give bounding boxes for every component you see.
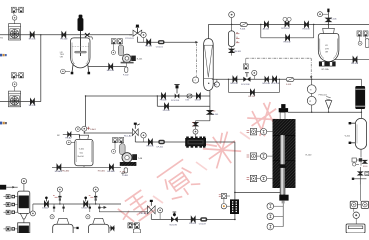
wire T-100 bottom line [52, 166, 121, 168]
wire bypass line y=106.3 [157, 96, 210, 106]
agitator shaft [80, 31, 82, 56]
valve HV-10B [233, 77, 237, 82]
svg-text:FV-108: FV-108 [163, 110, 171, 112]
dash-dot instrument line down to LT [196, 44, 198, 77]
valve HV-4B4 [110, 165, 114, 170]
svg-text:HV-102: HV-102 [145, 46, 153, 48]
tiny colored logo left edge middle [0, 122, 7, 125]
pump box P-101 [9, 24, 21, 40]
wire column bottom outlet [209, 91, 211, 121]
instrument square 2b-b [118, 39, 123, 44]
control valve PCV-101 body [133, 30, 142, 36]
instrument circle below line left [214, 82, 219, 87]
tiny colored logo left edge upper [0, 54, 7, 57]
valve B-101 on outlet (vertical) [207, 111, 212, 115]
svg-text:F-001: F-001 [240, 29, 246, 31]
wire V-100 outlet right [335, 59, 369, 61]
wire lateral to R-100 bottom [235, 191, 283, 193]
strainer F-001 on overhead line [240, 23, 247, 27]
gauge above [252, 70, 257, 75]
column CX-2 [18, 223, 30, 233]
column CX-1 [18, 191, 30, 213]
svg-text:HV-A2: HV-A2 [65, 137, 72, 140]
control valve PCV-A0 [132, 129, 138, 136]
link wire between squares [14, 10, 19, 14]
internal dashed level [72, 46, 89, 48]
vessel A [57, 218, 69, 224]
motor valve RCV-102 [285, 21, 289, 26]
bypass loop on overhead line [261, 25, 314, 38]
rotameter body F-100 [228, 31, 234, 47]
wire line into PCV-A1 [99, 211, 147, 213]
instrument square + circle left of mixer [221, 194, 226, 199]
valve on N2 line [68, 132, 71, 136]
gauge after PCV-A1 [158, 208, 163, 213]
V-100 body outer [318, 34, 339, 62]
svg-text:F-4B1: F-4B1 [122, 175, 129, 177]
inlet black box left edge [0, 185, 6, 190]
svg-text:FV-109: FV-109 [189, 223, 197, 225]
gauge circle above pump 1 [12, 15, 17, 20]
gauge right of funnel [30, 211, 35, 216]
fitting under pump F-4B1 [124, 168, 127, 173]
pump body E-101 [123, 54, 132, 63]
bottom coupling [279, 195, 288, 201]
instrument square on dashed line [245, 58, 247, 64]
T-100 neck [79, 135, 88, 139]
gauge on overhead line [229, 12, 235, 18]
valve HV-10B on y142 [149, 139, 153, 144]
T-100 body [75, 139, 93, 165]
svg-text:F-102: F-102 [123, 74, 129, 76]
svg-text:HV-103: HV-103 [303, 29, 311, 31]
svg-text:SCV-7B: SCV-7B [169, 224, 177, 226]
svg-text:PSV-101: PSV-101 [319, 94, 328, 96]
junction dots on overhead [231, 24, 232, 25]
instrument circle right of column bottom [214, 82, 219, 87]
control valve FCV-101 [175, 93, 180, 98]
svg-text:D-101: D-101 [42, 208, 49, 210]
gauge circle left of neck [67, 140, 72, 145]
wire drop from main line to station2 line [40, 35, 42, 102]
wire PCV-A1 to bottom line [151, 214, 235, 220]
wire circle to box [14, 20, 16, 24]
column shell [204, 39, 214, 91]
wire long line y=96 [86, 95, 210, 97]
vessel legs [72, 64, 89, 73]
svg-text:FV-105: FV-105 [351, 63, 359, 65]
svg-text:PCV-101: PCV-101 [125, 38, 134, 40]
svg-text:P1-4B: P1-4B [129, 222, 137, 226]
agitator motor M1 [79, 15, 83, 19]
svg-text:FCV-101: FCV-101 [171, 100, 180, 102]
inner tube upper white [280, 112, 285, 135]
wire vessel1 bottom outlet line [89, 66, 127, 68]
svg-text:R-100: R-100 [306, 154, 313, 156]
instrument square 2b-a [111, 39, 116, 44]
V-101 left nozzles [351, 123, 355, 143]
svg-text:F-001: F-001 [286, 84, 292, 86]
svg-text:RCV-102: RCV-102 [281, 28, 290, 30]
valve SP-102 [31, 99, 35, 104]
instrument circle LT-101 [193, 77, 199, 83]
svg-text:HV-105: HV-105 [147, 146, 155, 148]
svg-text:D-102: D-102 [82, 208, 89, 210]
actuated valve D-2B [84, 201, 88, 206]
gauge PI on y142 [141, 133, 146, 138]
agitator paddle [75, 51, 87, 53]
gauge above column 1 [21, 178, 26, 183]
svg-text:AV-101: AV-101 [263, 28, 271, 31]
svg-text:SP-102: SP-102 [29, 105, 37, 107]
valve HV-103 [305, 22, 309, 27]
svg-text:HV-10B: HV-10B [263, 83, 271, 85]
V-100 jacket inner [320, 39, 338, 59]
svg-text:HV-102: HV-102 [284, 41, 292, 43]
V-100 neck [323, 28, 335, 33]
R-100 left instrument pairs [247, 129, 273, 135]
control valve FCV-10B [243, 77, 250, 82]
gauge circle [353, 212, 359, 218]
svg-text:B-101: B-101 [213, 114, 219, 116]
svg-text:CF-101: CF-101 [156, 146, 164, 148]
svg-text:HV-4B1: HV-4B1 [98, 171, 106, 173]
gauge circle above exchanger [193, 129, 198, 134]
svg-text:FCV-108: FCV-108 [241, 84, 250, 86]
gauge circle at vessel bottom-left [61, 69, 66, 74]
svg-text:F-106: F-106 [331, 18, 337, 20]
wire column top to overhead line [208, 25, 369, 39]
V-100 support band (dark) [319, 61, 336, 66]
calibration column st3 [120, 144, 126, 155]
svg-text:HV-4B0: HV-4B0 [62, 171, 70, 173]
instrument square station2 b [19, 73, 24, 78]
tiny valve bottom far left of B [111, 226, 114, 230]
valve pair [265, 77, 268, 82]
valve FV-105 [353, 57, 357, 62]
svg-text:T-100: T-100 [79, 149, 85, 151]
control valve PCV-A1 [148, 206, 156, 214]
inline mixer X on line [85, 33, 90, 37]
valve HV-101b on bypass [286, 35, 290, 40]
inner tube lower gray [280, 135, 285, 195]
valve HV on feed line [62, 32, 66, 37]
svg-text:HV-103: HV-103 [107, 70, 115, 72]
wire elbow down to T-100 [85, 96, 87, 126]
instrument square FI-1 [11, 7, 16, 12]
bypass U loop [229, 79, 280, 92]
gauge circle 2b [111, 50, 115, 54]
svg-text:HV-105: HV-105 [234, 51, 242, 53]
svg-text:HV-107: HV-107 [248, 96, 256, 98]
valve HV-103a [109, 64, 113, 69]
instrument squares [350, 201, 357, 208]
inner tube top cap [281, 104, 285, 108]
wire PCV-A0 down to y142 line [135, 136, 235, 142]
svg-text:D-101: D-101 [195, 100, 202, 102]
svg-text:PSL-A1: PSL-A1 [139, 212, 147, 215]
svg-text:CV-109: CV-109 [199, 224, 207, 226]
vessel B [93, 218, 105, 224]
valve FV-10B on bypass [165, 104, 169, 109]
valve HV-A3 [57, 165, 61, 170]
pump base hatched [120, 162, 137, 166]
wire station2 discharge line [0, 101, 41, 103]
hatched jacket body [273, 119, 296, 188]
check valve CF-101 dark [158, 140, 165, 144]
svg-text:HV-100: HV-100 [60, 38, 68, 40]
instrument square st3-b [119, 137, 124, 142]
svg-text:F-A01: F-A01 [90, 128, 97, 131]
pump body P-4B [122, 153, 132, 163]
svg-text:17R: 17R [325, 48, 329, 50]
wire T100 top to PCV-A0 line [84, 131, 132, 133]
fittings cluster below V-101 [352, 158, 356, 162]
wire main feed line y=34.8 [0, 34, 132, 36]
check valve CV-102 [187, 94, 192, 98]
svg-text:SP-101: SP-101 [29, 38, 37, 40]
svg-text:FCV-10B: FCV-10B [271, 83, 280, 85]
watermark glyph cluster (pink) [115, 99, 285, 228]
vent stack with gauge [327, 12, 329, 28]
junction dots misc [40, 34, 41, 35]
svg-text:V-101: V-101 [345, 136, 351, 138]
svg-text:OR: OR [60, 57, 64, 59]
svg-text:BT-10A: BT-10A [322, 68, 330, 71]
column internals cone [204, 45, 214, 78]
svg-text:RCL-A0: RCL-A0 [124, 134, 132, 137]
svg-text:HV-106: HV-106 [231, 83, 239, 85]
svg-text:OR: OR [325, 52, 329, 54]
pump box P-102 [9, 91, 21, 107]
pump impeller P-101 [10, 29, 19, 39]
valve HV-102 on y42 [147, 40, 151, 45]
svg-text:E-101: E-101 [137, 59, 143, 61]
valve FV-102 [162, 93, 166, 98]
instrument square st3-a [113, 137, 118, 142]
wire PCV101 drop and line y=42 [137, 37, 195, 43]
small instruments bottom center [128, 223, 133, 228]
svg-text:T-4B: T-4B [138, 158, 143, 160]
svg-text:NaOH: NaOH [78, 156, 84, 158]
tube mid coupling [280, 164, 286, 168]
R-100 bottom sample circles [282, 203, 284, 226]
strainer F-001b [286, 78, 294, 82]
angle valve above exchanger [195, 121, 197, 122]
calibration column 2b [118, 45, 123, 56]
valve SP-101 [30, 32, 34, 37]
control valve SCV-7B [171, 216, 178, 222]
vessel top curl nozzle [90, 37, 92, 40]
wire from column outlet elbow to exchanger inlet [196, 120, 210, 122]
fitting under pump F-102 [125, 67, 128, 72]
gauge circle st3 [112, 149, 116, 153]
valve D-101 [197, 93, 201, 98]
svg-text:HV-4B4: HV-4B4 [107, 171, 115, 173]
gauge circles on T-100 top [76, 127, 81, 132]
svg-text:FV-102: FV-102 [160, 100, 168, 102]
arrow at end of y42 line [195, 41, 198, 44]
drum [346, 224, 365, 233]
check valve CV-101 dark [158, 40, 165, 44]
instrument square FI-2 [19, 7, 24, 12]
cross fitting [353, 167, 366, 185]
actuated valve D-1B [45, 201, 49, 206]
funnel between columns [20, 213, 27, 219]
svg-text:CV-101: CV-101 [156, 46, 164, 48]
valve FV-109 [191, 217, 195, 222]
vessel body VES-1 [71, 38, 90, 68]
check valve CV-109 dark [200, 217, 207, 221]
instrument square station2 a [11, 73, 16, 78]
gauge circle station2 [12, 82, 17, 87]
valve AV-101 [265, 22, 269, 27]
valve HV-105v below rotameter (vertical) [231, 47, 233, 49]
side instrument pairs column1 [3, 195, 17, 199]
gauge PI on y42 [141, 32, 146, 37]
